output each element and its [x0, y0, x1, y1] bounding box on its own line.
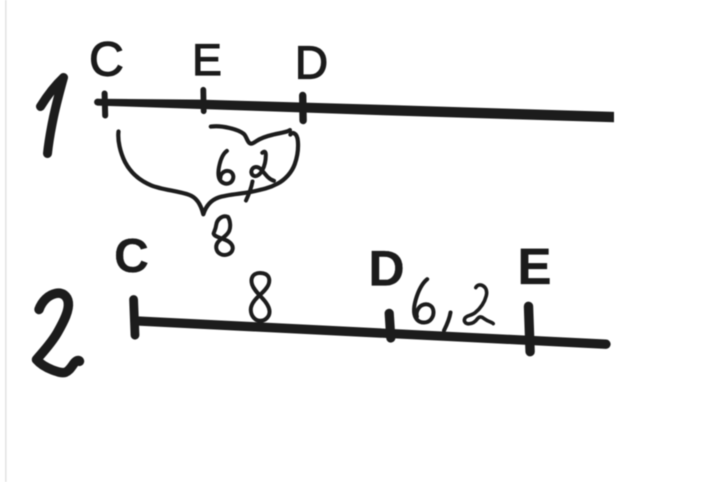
tick D2: [389, 313, 391, 338]
svg-text:D: D: [368, 241, 404, 297]
tick D1: [299, 96, 307, 121]
svg-text:E: E: [517, 238, 551, 295]
comma (line 2): [444, 313, 451, 331]
page edge shading: [5, 0, 7, 482]
comma (line 1): [246, 182, 253, 201]
segment line 1: [97, 99, 614, 123]
tick C1: [102, 94, 109, 116]
value 6 (line 2): [414, 279, 433, 322]
numeral 1: [41, 78, 64, 154]
svg-text:C: C: [114, 230, 149, 283]
segment line 2: [135, 321, 606, 344]
big brace C-D: [118, 132, 298, 215]
tick E2: [529, 306, 531, 351]
tick E1: [200, 90, 206, 111]
value 8 (line 1): [214, 216, 233, 255]
small bracket E-D: [211, 126, 290, 143]
svg-text:E: E: [192, 36, 222, 85]
numeral 2: [37, 293, 80, 372]
value 6 (line 1): [218, 151, 233, 184]
segment line 1 left cap: [97, 99, 98, 106]
value 2 (line 1, cursive): [251, 152, 274, 181]
value 2 (line 2): [464, 285, 493, 324]
value 8 (line 2): [251, 273, 270, 321]
svg-text:D: D: [295, 37, 328, 89]
svg-text:C: C: [89, 34, 124, 87]
tick C2: [134, 300, 135, 336]
